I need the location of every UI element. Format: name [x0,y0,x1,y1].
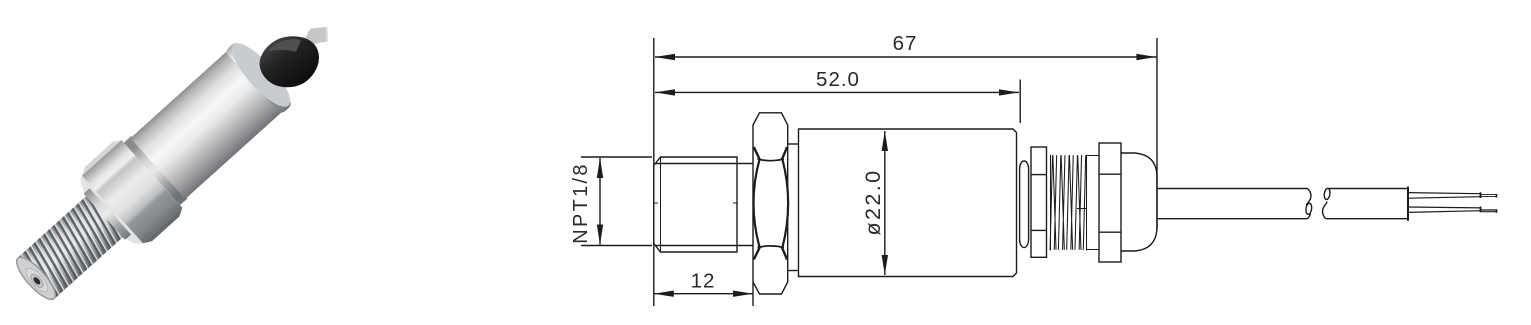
cable segment 1 [1157,189,1312,219]
svg-text:52.0: 52.0 [816,68,860,91]
photo shoulder between thread and hex [84,188,131,239]
photo black gland cap [260,36,319,87]
photo hex nut [82,140,182,243]
dimension NPT1/8 [581,157,652,246]
hex nut [753,113,788,294]
neck between hex and body [788,144,799,271]
photo tip face [11,252,61,304]
wire top [1408,192,1497,198]
main body [799,129,1017,277]
gland dome [1121,153,1157,251]
photo body cylinder [130,50,283,199]
NPT thread fitting [654,157,753,252]
dimension 67 [655,54,1156,60]
extension line left [653,38,655,306]
collar capsule [1020,161,1029,248]
photo hex front face [72,167,152,252]
svg-text:67: 67 [893,32,918,55]
gland thread stud [1050,155,1099,251]
gland nut [1099,143,1121,262]
svg-text:12: 12 [691,270,716,293]
photo cable [300,27,328,50]
svg-text:NPT1/8: NPT1/8 [570,162,592,244]
dimension dia 22.0 [882,131,888,275]
flange plate [1031,147,1047,257]
dimension 52.0 [655,80,1020,124]
photo rim front face [224,36,298,114]
svg-text:ø22.0: ø22.0 [861,169,885,236]
dimension 12 [654,283,753,306]
photo rim ring [227,38,297,112]
extension line right of 67 / dome edge [1156,38,1158,229]
photo thread section [16,196,123,300]
cable segment 2 [1323,187,1408,221]
wire bottom [1408,207,1497,213]
photo chamfer ring hex to body [124,136,188,205]
